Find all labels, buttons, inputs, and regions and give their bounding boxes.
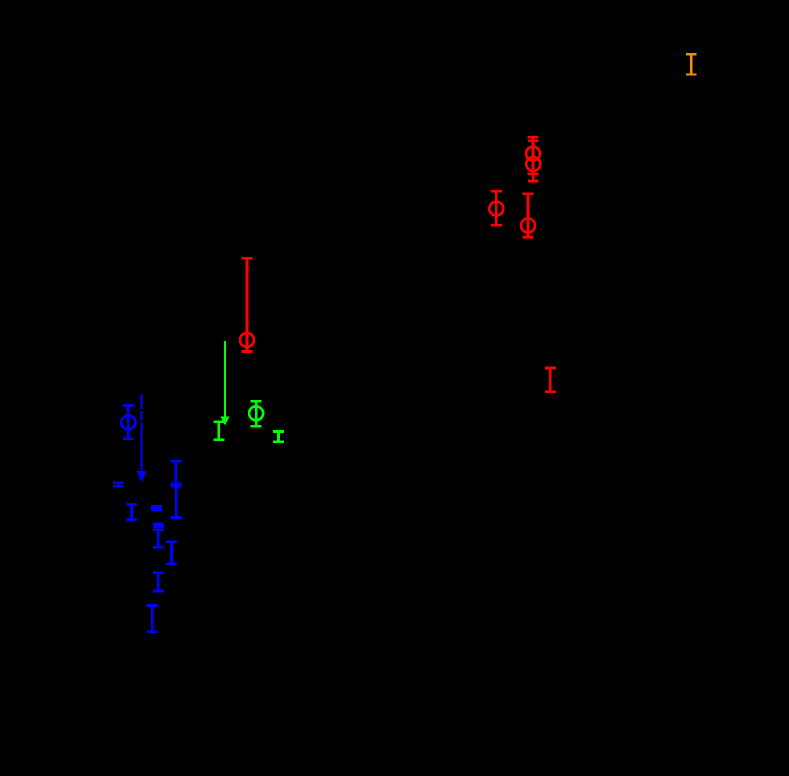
green downward arrow (upper limit) [220, 341, 229, 426]
blue thick dash marker 2 [153, 523, 164, 528]
green error bar (left, under arrow) [214, 422, 225, 440]
blue thick dash marker 1 [151, 505, 162, 511]
blue error bar A (tall, upper right of cluster) [171, 461, 182, 484]
red error bar with circle D (lower of overlapping pair) [526, 141, 540, 181]
blue tiny error bar (far left) [113, 483, 124, 487]
blue error bar (mid cluster) [153, 530, 164, 547]
green small error bar (right) [273, 432, 284, 442]
blue error bar (lower mid) [153, 573, 164, 591]
red error bar with circle E (left of pair below) [489, 191, 503, 225]
blue error bar with circle [121, 406, 135, 439]
blue error bar (right mid cluster) [166, 542, 177, 564]
green error bar with circle [249, 401, 263, 426]
blue error bar (left of cluster) [126, 504, 137, 519]
blue dashed downward arrow (upper limit) [137, 394, 147, 482]
blue error bar B (tall, below A) [171, 486, 182, 517]
red error bar with circle F [521, 194, 535, 238]
blue error bar (bottom) [147, 606, 158, 632]
orange error bar (top right) [686, 54, 697, 74]
red long error bar with circle G [240, 258, 254, 351]
red plain error bar (lower) [545, 368, 556, 392]
red error bar with circle C (upper of overlapping pair) [526, 137, 540, 173]
